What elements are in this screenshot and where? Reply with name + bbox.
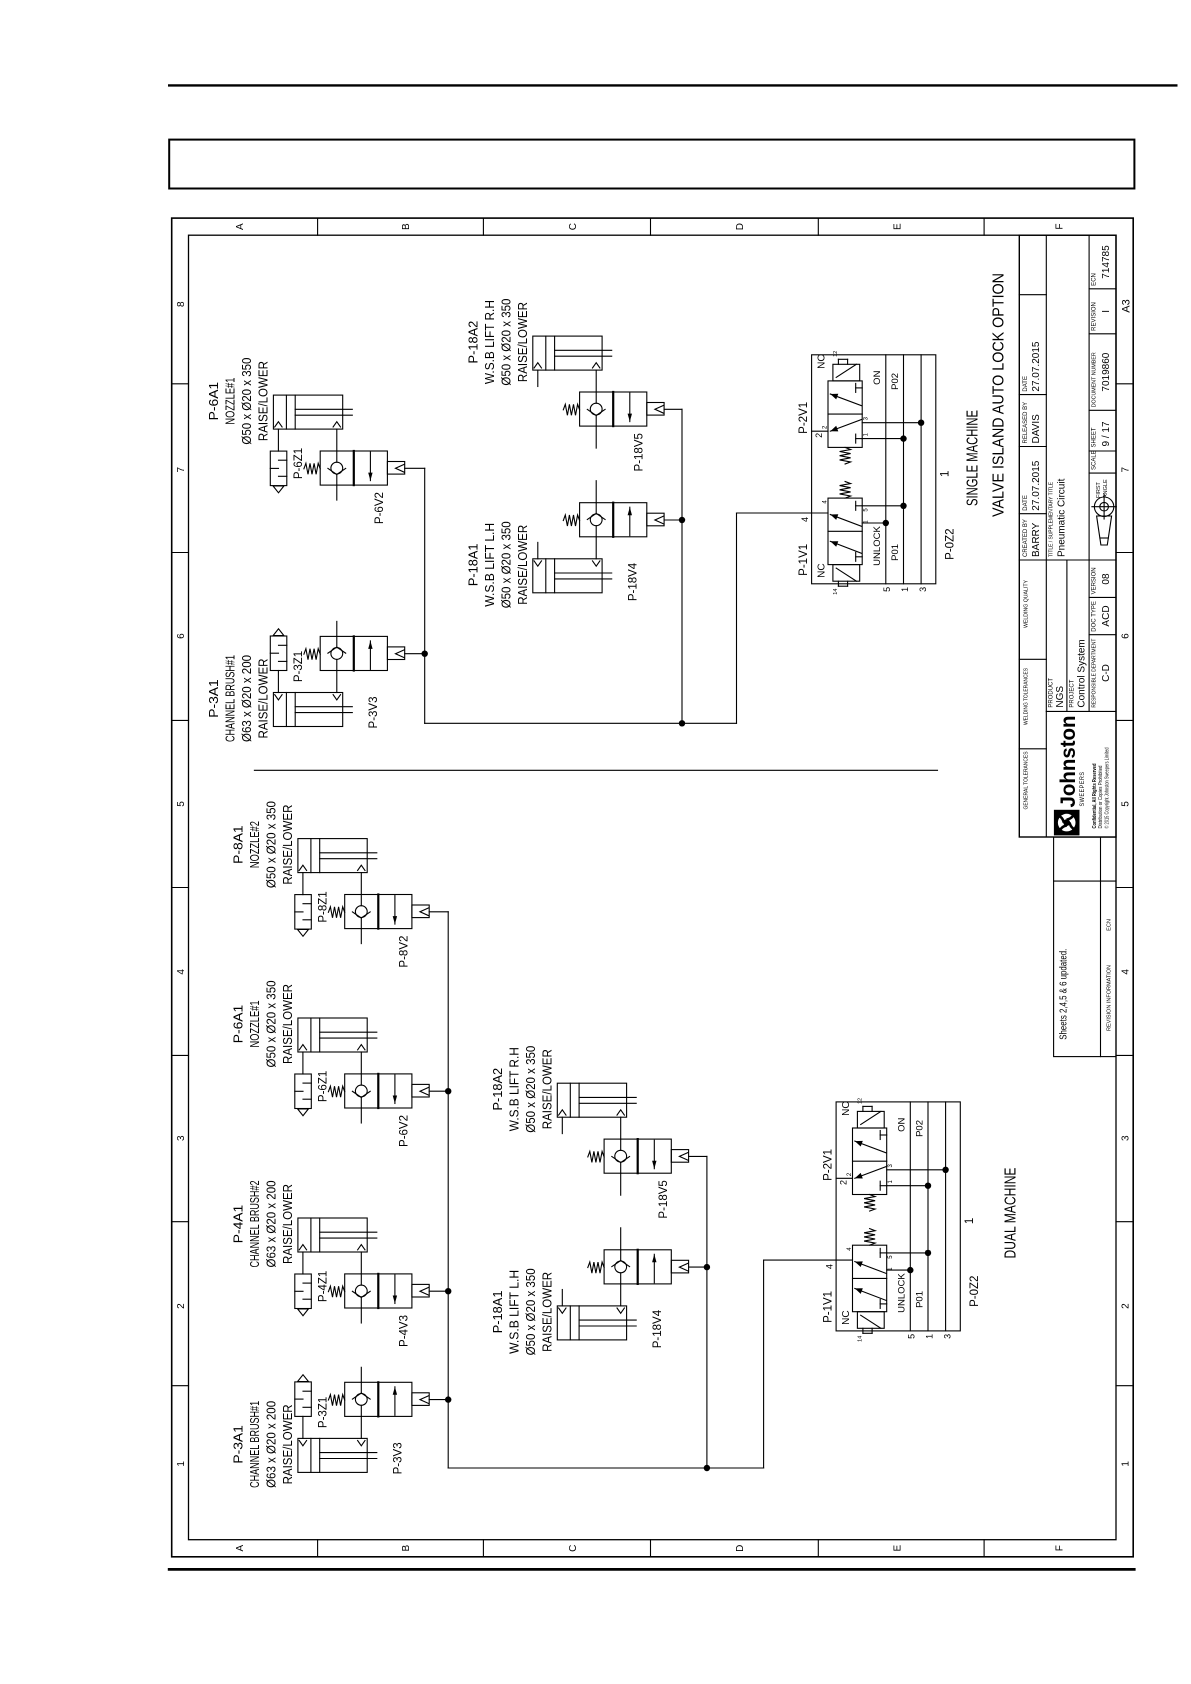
valve P-4V3 return spring [328, 1286, 344, 1297]
svg-text:NOZZLE#2: NOZZLE#2 [247, 821, 262, 868]
svg-text:DATE: DATE [1023, 495, 1029, 511]
wire S18R cylinder portA stub [537, 370, 539, 386]
valve P-2V1 single cell divider [828, 413, 862, 415]
wire P-2V1 dual port3 to rail3 [887, 1169, 946, 1171]
svg-text:7: 7 [176, 466, 187, 472]
svg-text:P-6V2: P-6V2 [399, 1115, 411, 1147]
wire S3 pilot to bus [405, 653, 425, 655]
wire D18L cylinder portA stub [561, 1290, 563, 1306]
svg-text:3: 3 [918, 587, 928, 592]
cylinder D8 port A triangle [299, 865, 306, 870]
valve P-18V5 cell divider [637, 1139, 639, 1173]
valve P-6V2 body [320, 451, 387, 485]
svg-text:W.S.B LIFT L.H: W.S.B LIFT L.H [507, 1270, 522, 1354]
wire D4 cylinder portA to P-4Z1 [302, 1252, 304, 1274]
valve P-18V4 check ball [615, 1261, 627, 1273]
svg-text:1: 1 [900, 587, 910, 592]
valve P-4V3 check seat [352, 1291, 361, 1297]
svg-text:Ø63 x Ø20 x 200: Ø63 x Ø20 x 200 [264, 1181, 279, 1268]
valve P-8V2 lower cell arrow [394, 896, 396, 925]
svg-text:12: 12 [833, 351, 839, 357]
valve P-2V1 single solenoid pins [837, 359, 839, 364]
valve P-6V2 flow line upper cell [360, 1097, 362, 1108]
valve P-6V2 pilot triangle [396, 464, 405, 472]
valve P-6V2 check ball [355, 1085, 367, 1097]
rail 5 dual [909, 1102, 911, 1331]
svg-text:2: 2 [176, 1303, 187, 1309]
svg-text:NOZZLE#1: NOZZLE#1 [247, 1001, 262, 1048]
svg-text:P-4V3: P-4V3 [399, 1315, 411, 1347]
svg-text:REVISION INFORMATION: REVISION INFORMATION [1107, 965, 1113, 1031]
cylinder S18L port B triangle [593, 561, 600, 566]
svg-text:5: 5 [176, 801, 187, 807]
valve P-4V3 exhaust stub [360, 1308, 362, 1323]
valve P-1V1 single flow arrows [830, 515, 861, 527]
junction dot P-2V1 port1 dual [925, 1183, 931, 1189]
junction dot P-18V4 pilot single [679, 517, 685, 523]
valve P-2V1 dual solenoid pins [862, 1106, 864, 1111]
page empty header box [169, 140, 1134, 189]
svg-text:GENERAL TOLERANCES: GENERAL TOLERANCES [1024, 751, 1030, 809]
cylinder S6 rod [295, 414, 352, 416]
valve P-18V4 check ball [590, 514, 602, 526]
valve P-8V2 return spring [328, 907, 344, 918]
svg-text:P-3A1: P-3A1 [206, 679, 221, 718]
svg-text:Johnston: Johnston [1056, 716, 1080, 808]
valve P-1V1 single solenoid pins [837, 581, 839, 586]
valve P-3V3 cell divider [377, 1382, 379, 1416]
valve P-3V3 lower cell arrow [394, 1387, 396, 1416]
valve P-2V1 dual cell divider [853, 1160, 887, 1162]
wire S6 pilot to bus [405, 467, 425, 469]
valve P-3V3 lower cell arrow [369, 641, 371, 670]
svg-text:F: F [1055, 1545, 1066, 1551]
svg-text:P-6Z1: P-6Z1 [318, 1071, 330, 1102]
cylinder S18R port A triangle [534, 363, 541, 368]
valve P-4V3 cell divider [377, 1274, 379, 1308]
restrictor P-8Z1 body [295, 895, 312, 930]
valve P-18V4 check seat [587, 513, 596, 519]
valve P-2V1 single blocked ports [856, 438, 863, 440]
cylinder S3 rod [295, 712, 352, 714]
svg-text:VALVE ISLAND AUTO LOCK OPTION: VALVE ISLAND AUTO LOCK OPTION [991, 273, 1008, 517]
valve P-6V2 lower cell arrow [394, 1075, 396, 1104]
cylinder S18L body [533, 559, 602, 593]
junction dot P-3V3 pilot [422, 650, 428, 656]
svg-text:Sheets 2,4,5 & 6 updated.: Sheets 2,4,5 & 6 updated. [1059, 949, 1070, 1040]
wire S18R cylinder portB to P-18V5 [595, 370, 597, 392]
valve P-18V5 pilot box [671, 1150, 688, 1163]
svg-text:NC: NC [841, 1310, 852, 1324]
valve island dual enclosure [836, 1102, 960, 1331]
restrictor P-3Z1 body [295, 1382, 312, 1417]
svg-text:NGS: NGS [1055, 686, 1066, 708]
svg-text:P-4A1: P-4A1 [231, 1205, 246, 1244]
svg-text:RESPONSIBLE DEPARTMENT: RESPONSIBLE DEPARTMENT [1092, 638, 1098, 708]
cylinder S6 port A triangle [275, 422, 282, 427]
svg-text:CHANNEL BRUSH#1: CHANNEL BRUSH#1 [223, 655, 238, 742]
svg-text:3: 3 [176, 1135, 187, 1141]
valve P-18V5 body [580, 392, 647, 426]
svg-text:B: B [401, 1545, 412, 1552]
valve P-8V2 body [345, 895, 412, 929]
restrictor P-6Z1 body [270, 451, 287, 486]
svg-text:A3: A3 [1121, 299, 1133, 312]
svg-text:Ø63 x Ø20 x 200: Ø63 x Ø20 x 200 [239, 655, 254, 742]
valve P-3V3 flow line upper cell [336, 659, 338, 670]
valve P-6V2 cell divider [377, 1074, 379, 1108]
svg-text:ON: ON [872, 370, 883, 384]
svg-text:© 2015 Copyright Johnston Swee: © 2015 Copyright Johnston Sweepers Limit… [1104, 748, 1111, 829]
svg-text:WELDING QUALITY: WELDING QUALITY [1024, 580, 1030, 628]
valve P-18V4 pilot box [647, 513, 664, 526]
valve P-3V3 exhaust stub [360, 1367, 362, 1382]
cylinder S18L piston [545, 559, 547, 593]
wire dual bus vertical [448, 1467, 763, 1469]
wire S6 cylinder portB to P-6V2 [336, 429, 338, 451]
wire D3 pilot to bus [429, 1399, 448, 1401]
restrictor P-3Z1 exhaust triangle [298, 1375, 309, 1382]
title block row line 3 [1088, 235, 1090, 711]
svg-text:RAISE/LOWER: RAISE/LOWER [255, 659, 270, 739]
cylinder S18L port A triangle [534, 561, 541, 566]
svg-text:C: C [568, 223, 579, 230]
valve P-1V1 single solenoid box [833, 565, 860, 582]
valve P-6V2 body [345, 1074, 412, 1108]
cylinder S3 port A triangle [275, 695, 282, 700]
valve P-6V2 return spring [304, 463, 320, 474]
svg-text:BARRY: BARRY [1031, 522, 1042, 557]
svg-text:P-18A1: P-18A1 [490, 1291, 505, 1334]
valve P-6V2 cell divider [353, 451, 355, 485]
valve P-18V4 cell divider [637, 1250, 639, 1284]
svg-text:W.S.B LIFT R.H: W.S.B LIFT R.H [507, 1047, 522, 1131]
svg-text:VERSION: VERSION [1092, 567, 1098, 594]
cylinder D4 piston [310, 1218, 312, 1252]
svg-text:SHEET: SHEET [1092, 427, 1098, 447]
svg-text:P01: P01 [890, 544, 901, 561]
svg-text:CHANNEL BRUSH#1: CHANNEL BRUSH#1 [247, 1401, 262, 1488]
svg-text:P-18V4: P-18V4 [652, 1309, 664, 1348]
junction dot P-2V1 port3 dual [942, 1167, 948, 1173]
svg-text:UNLOCK: UNLOCK [897, 1273, 908, 1313]
svg-text:1: 1 [176, 1461, 187, 1467]
wire single pilot bus horizontal upper [424, 468, 426, 723]
svg-text:NC: NC [817, 354, 828, 368]
valve P-4V3 pilot box [412, 1284, 429, 1297]
svg-text:E: E [892, 223, 903, 230]
junction dot P-1V1 port5 single [883, 520, 889, 526]
valve P-18V5 pilot triangle [679, 1153, 688, 1161]
cylinder D4 body [298, 1218, 367, 1252]
junction dot P-2V1 port1 single [900, 435, 906, 441]
valve P-3V3 body [345, 1382, 412, 1416]
restrictor P-6Z1 body [295, 1074, 312, 1109]
wire dual bus bottom [763, 1260, 765, 1468]
svg-text:RAISE/LOWER: RAISE/LOWER [280, 805, 295, 885]
cylinder D8 port B triangle [358, 865, 365, 870]
valve P-3V3 pilot triangle [396, 650, 405, 658]
wire D18L cylinder portB to P-18V4 [620, 1284, 622, 1306]
svg-text:P-18V5: P-18V5 [634, 433, 646, 471]
restrictor P-4Z1 body [295, 1274, 312, 1309]
page header rule [169, 84, 1176, 86]
svg-text:DATE: DATE [1023, 376, 1029, 392]
cylinder D18R piston [569, 1083, 571, 1117]
wire D6 cylinder portB to P-6V2 [360, 1052, 362, 1074]
valve P-18V4 body [604, 1250, 671, 1284]
svg-text:UNLOCK: UNLOCK [872, 526, 883, 566]
wire dual pilot bus horizontal upper [447, 912, 449, 1468]
svg-text:W.S.B LIFT L.H: W.S.B LIFT L.H [482, 523, 497, 607]
svg-text:NC: NC [841, 1101, 852, 1115]
svg-text:27.07.2015: 27.07.2015 [1031, 460, 1042, 510]
svg-text:P-18A1: P-18A1 [466, 543, 481, 586]
svg-text:RAISE/LOWER: RAISE/LOWER [255, 361, 270, 441]
svg-text:C-D: C-D [1101, 664, 1112, 682]
valve P-18V4 flow line upper cell [595, 526, 597, 537]
svg-text:P-3Z1: P-3Z1 [293, 651, 305, 682]
restrictor P-6Z1 exhaust triangle [298, 1109, 309, 1116]
valve P-2V1 dual solenoid box [857, 1111, 884, 1128]
restrictor P-3Z1 body [270, 636, 287, 671]
cylinder S3 piston [285, 693, 287, 727]
svg-text:3: 3 [1121, 1135, 1132, 1141]
svg-text:P-6Z1: P-6Z1 [293, 448, 305, 479]
valve P-3V3 flow line upper cell [360, 1405, 362, 1416]
valve P-6V2 check ball [331, 462, 343, 474]
wire P-1V1 single port1 to rail1 [862, 505, 903, 507]
title block row line 2 left [1066, 560, 1068, 711]
valve P-1V1 dual blocked ports [880, 1252, 887, 1254]
wire D6 pilot to bus [429, 1090, 448, 1092]
svg-text:P-0Z2: P-0Z2 [945, 528, 957, 559]
svg-text:P-3V3: P-3V3 [368, 697, 380, 729]
svg-text:NC: NC [817, 563, 828, 577]
restrictor P-6Z1 baffles [279, 459, 287, 461]
wire D3 cylinder portB to P-3V3 [360, 1416, 362, 1438]
svg-text:6: 6 [176, 633, 187, 639]
svg-text:CREATED BY: CREATED BY [1023, 519, 1029, 557]
cylinder D6 rod [320, 1037, 377, 1039]
valve P-6V2 flow line upper cell [336, 474, 338, 485]
frame row ticks right [317, 218, 319, 235]
svg-text:4: 4 [1121, 969, 1132, 975]
wire D6 cylinder portA to P-6Z1 [302, 1052, 304, 1074]
cylinder S18L rod [555, 578, 612, 580]
cylinder D3 rod [320, 1458, 377, 1460]
junction dot P-2V1 port3 single [918, 419, 924, 425]
svg-text:RAISE/LOWER: RAISE/LOWER [280, 984, 295, 1064]
svg-text:P-18V5: P-18V5 [658, 1180, 670, 1218]
valve P-4V3 body [345, 1274, 412, 1308]
svg-text:8: 8 [176, 301, 187, 307]
valve P-6V2 exhaust stub [360, 1108, 362, 1123]
svg-text:2: 2 [1121, 1303, 1132, 1309]
valve P-8V2 pilot box [412, 905, 429, 918]
svg-text:WELDING TOLERANCES: WELDING TOLERANCES [1024, 668, 1030, 725]
svg-text:P-1V1: P-1V1 [798, 544, 810, 576]
valve P-3V3 pilot box [387, 647, 404, 660]
junction dot dual trunk join [704, 1465, 710, 1471]
valve P-1V1 dual solenoid box [857, 1312, 884, 1329]
svg-text:DOCUMENT NUMBER: DOCUMENT NUMBER [1092, 352, 1098, 407]
cylinder D18R rod [579, 1102, 636, 1104]
svg-text:SCALE: SCALE [1092, 450, 1098, 470]
title block row line 1 [1045, 235, 1047, 837]
svg-text:Ø50 x Ø20 x 350: Ø50 x Ø20 x 350 [523, 1046, 538, 1133]
cylinder S3 port B triangle [333, 695, 340, 700]
restrictor P-4Z1 baffles [303, 1282, 311, 1284]
valve P-6V2 pilot box [412, 1084, 429, 1097]
valve P-2V1 dual flow arrows [855, 1167, 886, 1179]
cylinder D4 port A triangle [299, 1245, 306, 1250]
valve P-2V1 single return spring [840, 447, 851, 464]
svg-text:REVISION: REVISION [1092, 302, 1098, 331]
wire S18L cylinder portB to P-18V4 [595, 537, 597, 559]
wire single island port4 drop [737, 512, 829, 514]
svg-text:9 / 17: 9 / 17 [1101, 421, 1112, 446]
cylinder D18L body [557, 1306, 626, 1340]
svg-text:P-6A1: P-6A1 [206, 382, 221, 421]
valve P-18V5 check seat [587, 409, 596, 415]
valve P-3V3 body [320, 636, 387, 670]
wire S3 cylinder portB to P-3V3 [336, 671, 338, 693]
cylinder D3 piston [310, 1438, 312, 1472]
valve P-8V2 exhaust stub [360, 929, 362, 944]
wire D18R cylinder portA stub [561, 1117, 563, 1133]
cylinder D6 body [298, 1018, 367, 1052]
svg-text:F: F [1055, 224, 1066, 230]
valve P-1V1 dual flow arrows [855, 1262, 886, 1274]
svg-text:1: 1 [924, 1334, 934, 1339]
valve P-2V1 single body [828, 381, 862, 448]
cylinder D6 port B triangle [358, 1045, 365, 1050]
svg-text:P-3Z1: P-3Z1 [318, 1397, 330, 1428]
svg-text:2: 2 [839, 1180, 849, 1185]
valve P-6V2 lower cell arrow [369, 452, 371, 481]
svg-text:DOC TYPE: DOC TYPE [1092, 601, 1098, 632]
valve P-3V3 check seat [352, 1393, 361, 1399]
svg-text:D: D [735, 223, 746, 230]
cylinder D3 body [298, 1438, 367, 1472]
valve P-18V5 pilot box [647, 403, 664, 416]
svg-text:ECN: ECN [1092, 273, 1098, 286]
valve P-18V4 cell divider [612, 503, 614, 537]
wire D8 pilot to bus [429, 911, 448, 913]
svg-text:RAISE/LOWER: RAISE/LOWER [280, 1404, 295, 1484]
valve P-3V3 pilot triangle [420, 1396, 429, 1404]
valve P-4V3 check ball [355, 1285, 367, 1297]
svg-text:4: 4 [176, 969, 187, 975]
svg-text:14: 14 [833, 589, 839, 595]
cylinder D3 port A triangle [299, 1441, 306, 1446]
svg-text:W.S.B LIFT R.H: W.S.B LIFT R.H [482, 300, 497, 384]
valve P-8V2 check ball [355, 906, 367, 918]
svg-text:1: 1 [940, 471, 952, 477]
svg-text:3: 3 [943, 1334, 953, 1339]
svg-text:DUAL MACHINE: DUAL MACHINE [1003, 1168, 1020, 1259]
cylinder S6 port B triangle [333, 422, 340, 427]
revision information box [1054, 837, 1116, 1057]
valve P-6V2 pilot box [387, 462, 404, 475]
wire D18R pilot to bus [689, 1155, 707, 1157]
restrictor P-4Z1 exhaust triangle [298, 1309, 309, 1316]
outer frame [172, 218, 1133, 1557]
svg-text:27.07.2015: 27.07.2015 [1031, 341, 1042, 391]
svg-text:4: 4 [825, 1264, 835, 1269]
valve P-18V4 exhaust stub [595, 481, 597, 503]
cylinder D18R port B triangle [617, 1110, 624, 1115]
valve P-4V3 pilot triangle [420, 1287, 429, 1295]
svg-text:5: 5 [907, 1334, 917, 1339]
cylinder D18L piston [569, 1306, 571, 1340]
valve P-1V1 single blocked ports [856, 505, 863, 507]
svg-text:P-18A2: P-18A2 [466, 321, 481, 364]
wire P-2V1 single port2 up [812, 430, 828, 432]
title block top row dividers [1019, 748, 1046, 750]
valve P-18V4 pilot triangle [655, 516, 664, 524]
restrictor P-3Z1 baffles [279, 660, 287, 662]
svg-text:TITLE / SUPPLEMENTARY TITLE: TITLE / SUPPLEMENTARY TITLE [1049, 482, 1055, 557]
wire D8 cylinder portA to P-8Z1 [302, 873, 304, 895]
valve P-18V5 flow line upper cell [620, 1162, 622, 1173]
cylinder D18L port B triangle [617, 1308, 624, 1313]
cylinder D4 rod [320, 1237, 377, 1239]
svg-text:PRODUCT: PRODUCT [1049, 678, 1055, 708]
valve P-2V1 single flow arrows [830, 420, 861, 432]
valve P-18V5 return spring [588, 1151, 604, 1162]
svg-text:CHANNEL BRUSH#2: CHANNEL BRUSH#2 [247, 1181, 262, 1268]
svg-text:B: B [401, 223, 412, 230]
valve P-2V1 single solenoid box [833, 364, 860, 381]
valve P-18V4 flow line upper cell [620, 1273, 622, 1284]
svg-text:D: D [735, 1545, 746, 1552]
valve P-1V1 dual solenoid pins [862, 1328, 864, 1333]
valve P-18V5 lower cell arrow [629, 393, 631, 422]
svg-text:14: 14 [858, 1336, 864, 1342]
wire S6 cylinder portA to P-6Z1 [277, 429, 279, 451]
divider single/dual machine [254, 769, 937, 771]
valve P-18V4 body [580, 503, 647, 537]
svg-text:RELEASED BY: RELEASED BY [1023, 402, 1029, 444]
svg-text:Ø63 x Ø20 x 200: Ø63 x Ø20 x 200 [264, 1401, 279, 1488]
cylinder D18R body [557, 1083, 626, 1117]
svg-text:P-2V1: P-2V1 [798, 402, 810, 434]
svg-text:Pneumatic Circuit: Pneumatic Circuit [1057, 478, 1068, 557]
svg-text:P-18V4: P-18V4 [628, 562, 640, 601]
svg-text:PROJECT: PROJECT [1070, 679, 1076, 707]
junction dot P-3V3 pilot dual [445, 1396, 451, 1402]
junction dot single trunk join [679, 720, 685, 726]
valve P-18V4 return spring [563, 515, 579, 526]
inner frame [189, 235, 1117, 1540]
svg-text:RAISE/LOWER: RAISE/LOWER [539, 1049, 554, 1129]
valve P-18V4 check seat [612, 1261, 621, 1267]
svg-text:P01: P01 [914, 1291, 925, 1308]
page footer rule [169, 1568, 1134, 1571]
wire D18R cylinder portB to P-18V5 [620, 1117, 622, 1139]
valve P-3V3 cell divider [353, 636, 355, 670]
valve P-8V2 cell divider [377, 895, 379, 929]
valve P-6V2 check seat [328, 468, 337, 474]
valve P-1V1 dual body [853, 1245, 887, 1312]
valve P-18V5 pilot triangle [655, 405, 664, 413]
svg-text:Confidential, All Rights Reser: Confidential, All Rights Reserved [1092, 764, 1098, 829]
svg-text:P02: P02 [914, 1120, 925, 1137]
wire D8 cylinder portB to P-8V2 [360, 873, 362, 895]
cylinder D8 rod [320, 858, 377, 860]
